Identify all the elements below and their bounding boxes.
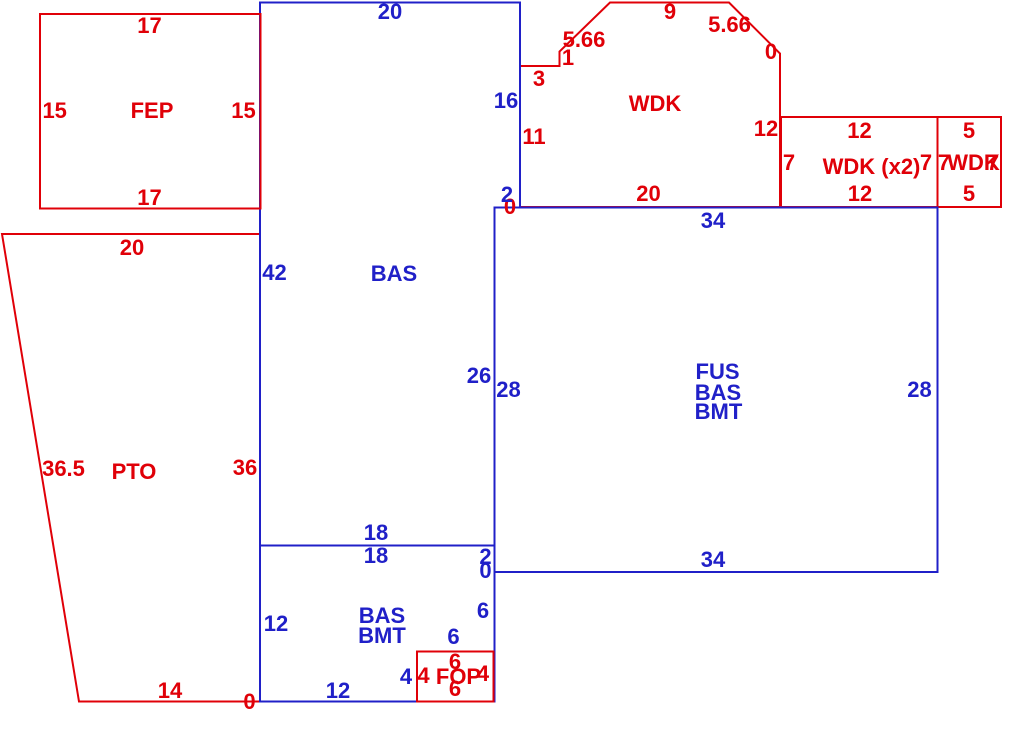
- label FUS name line1: [696, 361, 740, 383]
- label WDKr bottom 5: [963, 183, 975, 205]
- area FEP outline: [40, 14, 261, 209]
- label FOP top 6: [449, 651, 461, 673]
- area WDK right outline: [938, 117, 1002, 207]
- label PTO top 20: [120, 237, 144, 259]
- label WDK2 left 7: [783, 152, 795, 174]
- label FUS left 28: [496, 379, 520, 401]
- label FUS top 34: [701, 210, 725, 232]
- label PTO name: [112, 461, 157, 483]
- label WDKr right 7: [987, 152, 999, 174]
- label BMT name line2: [358, 625, 406, 647]
- label WDK2 top 12: [847, 120, 871, 142]
- area FUS BAS BMT outline: [495, 208, 938, 573]
- label WDK corner 0: [765, 41, 777, 63]
- label FEP top 17: [137, 15, 161, 37]
- label FUS name line2: [695, 382, 741, 404]
- label FOP bottom 6: [449, 678, 461, 700]
- area FOP outline: [417, 652, 494, 702]
- label BMT name line1: [359, 605, 405, 627]
- label BMT right 6 lower: [447, 626, 459, 648]
- area BAS BMT outline: [260, 546, 495, 702]
- area WDK outline: [520, 3, 780, 208]
- label WDK step 3: [533, 68, 545, 90]
- label BMT right 2: [479, 546, 491, 568]
- label FEP left 15: [42, 100, 66, 122]
- label BAS top 20: [378, 1, 402, 23]
- label WDK top 9: [664, 1, 676, 23]
- area WDK (x2) outline: [781, 117, 938, 207]
- label BAS right 16: [494, 90, 518, 112]
- label BMT top 18: [364, 545, 388, 567]
- area BAS outline: [260, 3, 520, 546]
- label BMT right 6 upper: [477, 600, 489, 622]
- label BMT 4: [400, 666, 412, 688]
- label FUS name line3: [695, 401, 743, 423]
- label WDK left 11: [522, 126, 545, 148]
- label FOP right 4: [477, 663, 489, 685]
- label WDKr name: [947, 152, 1000, 174]
- label BMT bottom 12: [326, 680, 350, 702]
- label FUS right 28: [907, 379, 931, 401]
- label FEP right 15: [231, 100, 255, 122]
- label WDK bottom 20: [636, 183, 660, 205]
- label WDK step 1: [562, 47, 574, 69]
- label BAS left 42: [262, 262, 286, 284]
- label PTO bottom 14: [158, 680, 182, 702]
- label BMT right 0: [479, 560, 491, 582]
- label WDK right 12: [754, 118, 778, 140]
- label WDK2 right 7: [920, 152, 932, 174]
- label FOP name: [436, 666, 481, 688]
- label FEP bottom 17: [137, 187, 161, 209]
- label PTO right 36: [233, 457, 257, 479]
- label FOP left 4: [417, 665, 429, 687]
- label BAS jog 2: [501, 184, 513, 206]
- label WDK corner 0 low: [504, 196, 516, 218]
- label BAS bottom 18: [364, 522, 388, 544]
- label WDKr top 5: [963, 120, 975, 142]
- label BAS name: [371, 263, 417, 285]
- label WDK name: [629, 93, 682, 115]
- label FEP name: [131, 100, 174, 122]
- label PTO left 36.5: [42, 458, 85, 480]
- label FUS bottom 34: [701, 549, 725, 571]
- label WDK2 bottom 12: [848, 183, 872, 205]
- label WDK diag right 5.66: [708, 14, 751, 36]
- label BMT left 12: [264, 613, 288, 635]
- label PTO corner 0: [243, 691, 255, 713]
- area PTO outline: [2, 234, 260, 702]
- label BAS right 26: [467, 365, 491, 387]
- label WDK2 name: [823, 156, 921, 178]
- label WDK diag left 5.66: [563, 29, 606, 51]
- label WDKr left 7: [938, 152, 950, 174]
